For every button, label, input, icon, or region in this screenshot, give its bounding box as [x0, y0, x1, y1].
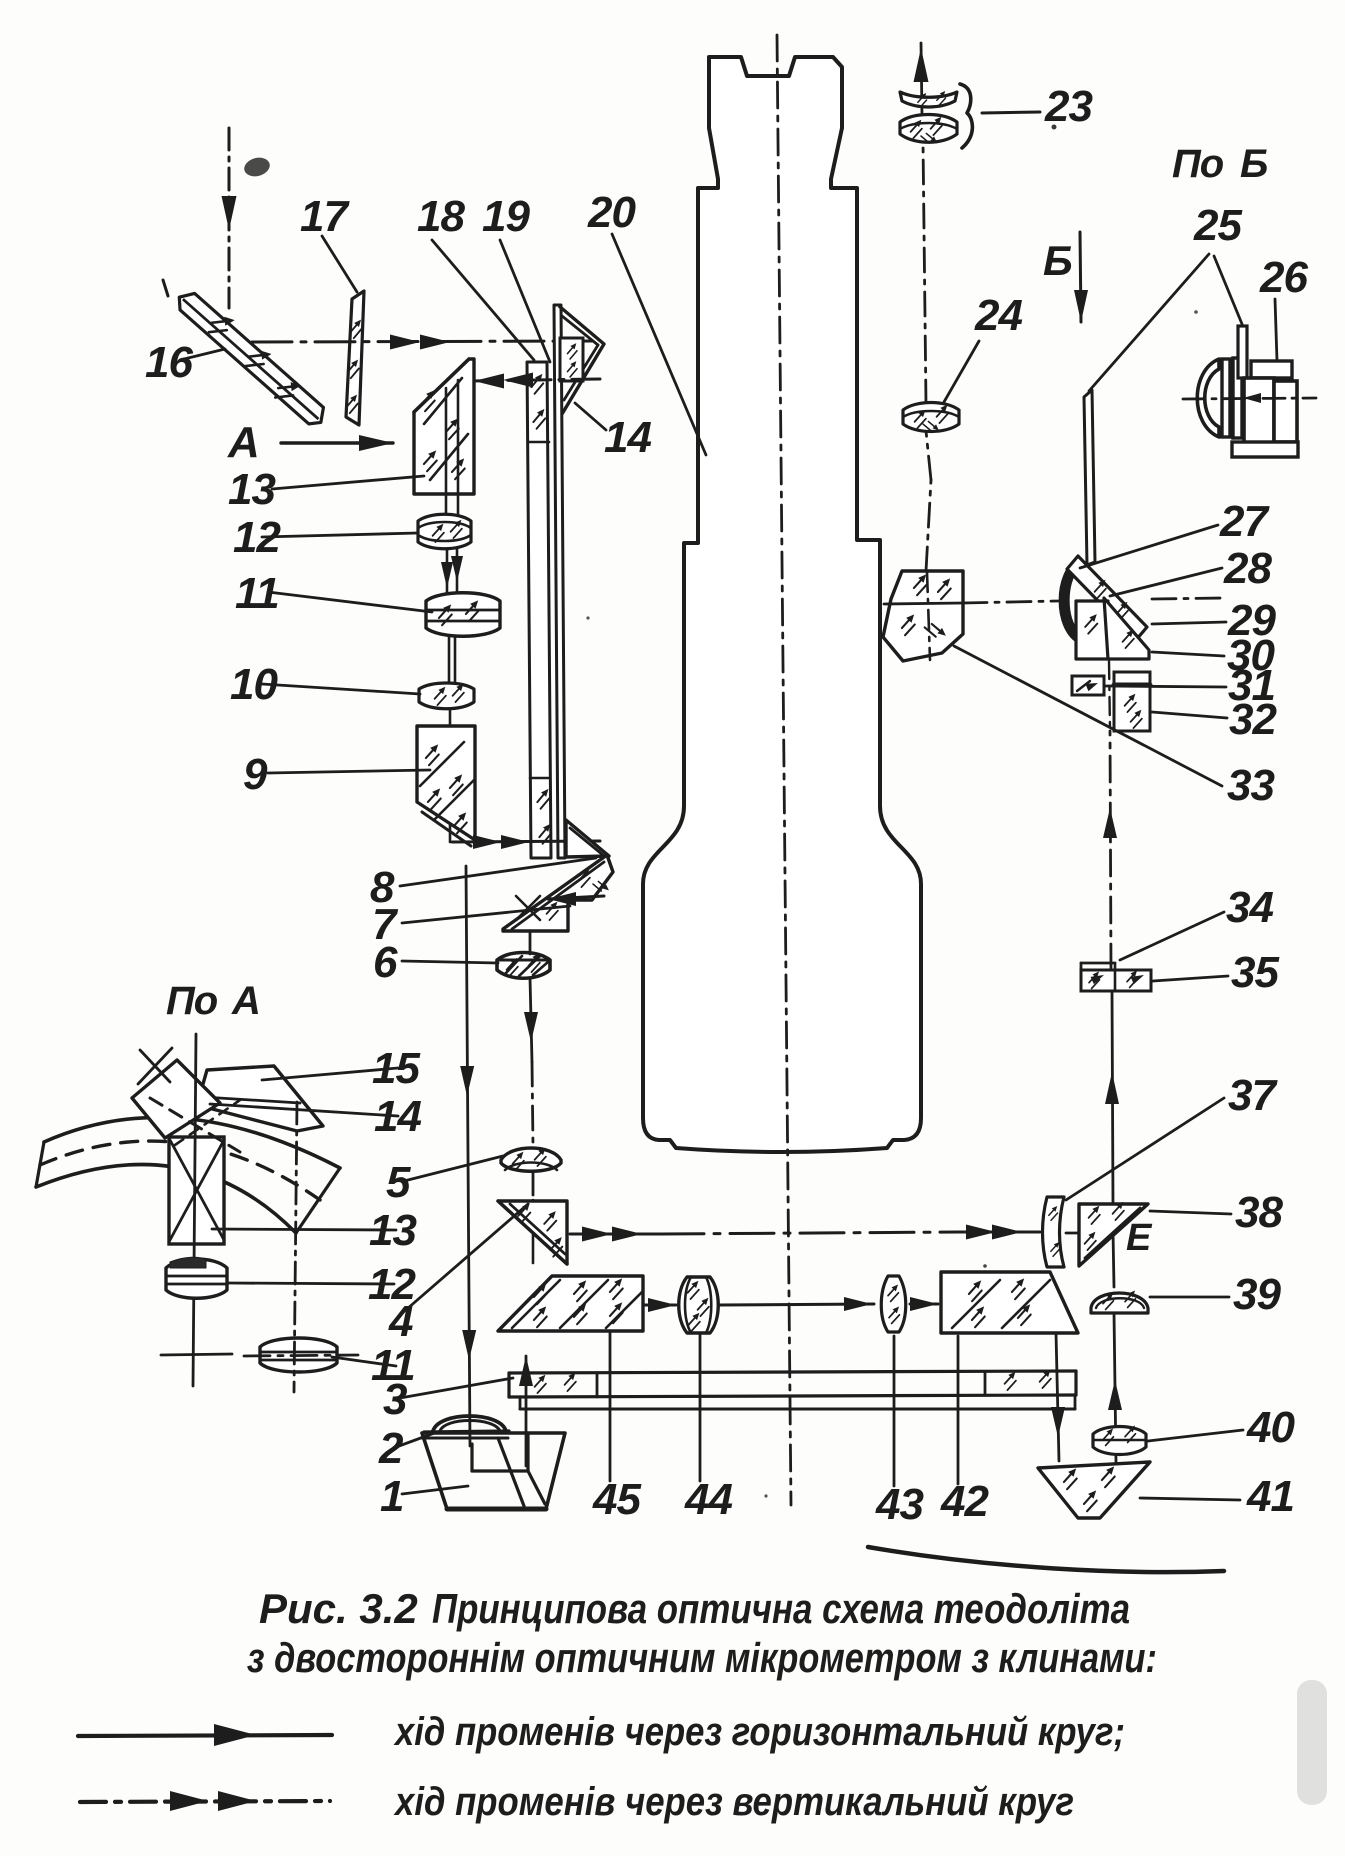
telescope centerline [777, 35, 791, 1505]
leader 25b [1214, 256, 1242, 324]
plate 25 (vertical glass scale) [1084, 390, 1095, 565]
stray curve [868, 1547, 1224, 1572]
По Б axis [1183, 393, 1316, 403]
housing 1 [422, 1433, 565, 1509]
mirror 16 [172, 280, 336, 431]
svg-text:E: E [1126, 1217, 1153, 1259]
По А rect 13 [169, 1137, 224, 1244]
arrow Б [1074, 232, 1088, 322]
label 8 [370, 858, 596, 912]
svg-text:23: 23 [1044, 82, 1092, 131]
beam prism4 rightward [570, 1225, 1040, 1242]
prism 8 [566, 820, 609, 857]
По А pentagon 15 [197, 1066, 323, 1131]
lens 44 [679, 1277, 719, 1333]
beam inside prism 7 leftward [548, 892, 604, 906]
svg-text:32: 32 [1229, 695, 1277, 744]
vertical entry beam [222, 128, 237, 308]
svg-text:По: По [1172, 142, 1224, 186]
lens 10 [419, 682, 474, 709]
axis between 31 32 [1109, 661, 1110, 731]
lens 12 [418, 514, 471, 549]
По А axis tick [161, 1354, 232, 1355]
label 44 [684, 1334, 732, 1524]
label 10 [230, 660, 420, 709]
lens 27 [1060, 559, 1078, 642]
label 25 [1193, 201, 1242, 250]
axis lens11 to lens10 [449, 636, 455, 683]
svg-text:16: 16 [145, 338, 193, 387]
prism 29 box [1076, 601, 1108, 659]
svg-text:34: 34 [1226, 883, 1273, 932]
label 45 [592, 1333, 641, 1524]
svg-text:з двостороннім оптичним мікром: з двостороннім оптичним мікрометром з кл… [247, 1634, 1157, 1681]
По А diamond prism [132, 1060, 220, 1138]
label 18 [417, 192, 534, 360]
leader 23 [982, 112, 1040, 113]
label 15 [262, 1044, 420, 1093]
svg-text:18: 18 [417, 192, 465, 241]
prism 30 triangle [1104, 598, 1149, 659]
По Б right box [1274, 381, 1297, 442]
tick above mirror 16 [163, 280, 168, 296]
plate 32 [1114, 672, 1150, 731]
label 23 [1044, 82, 1092, 131]
svg-text:17: 17 [300, 192, 350, 241]
label 6 [373, 938, 498, 987]
label 38 [1150, 1188, 1283, 1237]
axis inside prism9 [449, 726, 452, 842]
plate 35 [1081, 963, 1151, 991]
label 3 [383, 1375, 513, 1424]
svg-text:1: 1 [380, 1472, 403, 1521]
label По А [166, 979, 260, 1023]
axis lens10 to prism9 [449, 709, 452, 728]
По А band [36, 1117, 340, 1233]
pentagon prism 33 [883, 571, 963, 661]
lens 11 [426, 593, 500, 637]
lens 2 [424, 1416, 509, 1432]
legend solid text [393, 1710, 1125, 1754]
label 43 [875, 1336, 923, 1529]
svg-text:Принципова оптична схема теодо: Принципова оптична схема теодоліта [432, 1585, 1130, 1632]
svg-text:Б: Б [1043, 237, 1072, 284]
prism 41 [1038, 1462, 1150, 1518]
prism 14 [559, 306, 604, 414]
svg-text:39: 39 [1233, 1270, 1281, 1319]
label 32 [1152, 695, 1277, 744]
svg-text:42: 42 [940, 1477, 989, 1526]
bar 3 [509, 1368, 1076, 1409]
svg-text:14: 14 [604, 413, 651, 462]
legend solid ray [78, 1724, 332, 1746]
prism 13 [414, 359, 474, 494]
label 14 [210, 1092, 421, 1141]
label 30 [1152, 631, 1275, 680]
legend dashdot ray [80, 1791, 330, 1811]
beam 45 to 44 [643, 1298, 676, 1312]
telescope body 20 [643, 57, 921, 1152]
beam 44 to 43 [719, 1297, 874, 1311]
beam x531 down [524, 931, 538, 1146]
label 4 [388, 1204, 528, 1346]
svg-text:6: 6 [373, 938, 398, 987]
svg-text:26: 26 [1259, 253, 1308, 302]
lens 43 [881, 1276, 906, 1332]
label 31 [1106, 661, 1275, 710]
label 26 [1259, 253, 1308, 361]
svg-text:3: 3 [383, 1375, 407, 1424]
svg-text:20: 20 [587, 188, 636, 237]
svg-text:А: А [231, 979, 260, 1023]
svg-text:35: 35 [1231, 948, 1279, 997]
smudge artifact [1297, 1680, 1327, 1805]
svg-text:37: 37 [1228, 1071, 1278, 1120]
label 17 [300, 192, 357, 292]
label 42 [940, 1336, 989, 1526]
label По Б [1172, 142, 1267, 186]
svg-text:Рис. 3.2: Рис. 3.2 [259, 1585, 418, 1632]
label 33 [954, 646, 1274, 810]
lens 40 [1093, 1424, 1146, 1455]
svg-text:33: 33 [1227, 761, 1274, 810]
label 13 [228, 465, 424, 514]
svg-text:Б: Б [1240, 142, 1267, 186]
svg-text:5: 5 [386, 1158, 411, 1207]
label 14 [575, 403, 651, 462]
svg-text:43: 43 [875, 1480, 923, 1529]
label 35 [1153, 948, 1279, 997]
prism 9 [417, 726, 475, 846]
label 34 [1120, 883, 1273, 960]
label 28 [1110, 544, 1272, 596]
beam 42 down to 41 [1051, 1333, 1065, 1461]
label 16 [145, 338, 225, 387]
label Б [1043, 237, 1072, 284]
label 40 [1148, 1403, 1295, 1452]
label 41 [1140, 1472, 1294, 1521]
По А lens 12 [166, 1257, 227, 1298]
По Б eyepiece lens [1197, 359, 1219, 437]
label 11 [332, 1341, 415, 1390]
legend dashdot text [393, 1780, 1074, 1824]
beam mirror16 to prism14 [252, 335, 592, 350]
По Б box 26 [1251, 361, 1292, 378]
beam 37 to 38 [1066, 1232, 1110, 1235]
По А lens11 axis [244, 1355, 358, 1356]
label 7 [372, 900, 570, 949]
label 12 [233, 513, 418, 562]
svg-text:13: 13 [228, 465, 275, 514]
svg-text:9: 9 [243, 750, 268, 799]
label 24 [944, 291, 1022, 402]
svg-text:41: 41 [1246, 1472, 1294, 1521]
beam prism14 to prism13 [470, 373, 600, 389]
svg-text:24: 24 [974, 291, 1022, 340]
prism 45 [498, 1276, 643, 1331]
svg-text:A: A [227, 418, 259, 467]
plate 18 (narrow vertical) [554, 305, 565, 858]
label 9 [243, 750, 430, 799]
caption line 1 [259, 1585, 1130, 1632]
label 29 [1152, 596, 1276, 645]
caption line 2 [247, 1634, 1157, 1681]
По А axis2 vertical [294, 1102, 297, 1392]
svg-text:45: 45 [592, 1475, 641, 1524]
label 27 [1080, 497, 1270, 568]
label 20 [587, 188, 706, 455]
svg-text:44: 44 [684, 1475, 732, 1524]
axis through lens5 prism4 [532, 1171, 535, 1263]
beam x526 up from lamp [519, 1356, 533, 1466]
По Б bottom bar [1232, 442, 1298, 457]
axis prism13 to lens12 [446, 380, 458, 515]
label A [227, 418, 259, 467]
svg-text:хід променів через вертикальни: хід променів через вертикальний круг [393, 1780, 1074, 1824]
label 11 [235, 569, 432, 618]
lens 37 [1043, 1197, 1065, 1267]
beam 39 to prism38 [1113, 1232, 1114, 1287]
label 5 [386, 1156, 503, 1207]
label E [1126, 1217, 1153, 1259]
prism 7 [503, 855, 613, 931]
По Б small plate 25 [1238, 326, 1247, 378]
svg-text:40: 40 [1246, 1403, 1295, 1452]
ink blob artifact [242, 155, 272, 179]
svg-text:19: 19 [482, 192, 530, 241]
plate 19 (wide vertical) [527, 362, 556, 858]
label 13 [212, 1206, 416, 1255]
svg-text:38: 38 [1235, 1188, 1283, 1237]
noise dots [586, 125, 1197, 1652]
prism 42 [941, 1272, 1078, 1333]
axis 33 to 24 to 23 [914, 43, 932, 480]
По А cross ticks [138, 1048, 172, 1084]
lens 24 [903, 403, 959, 435]
svg-text:28: 28 [1223, 544, 1272, 593]
label 12 [228, 1260, 416, 1309]
brace 23 [960, 84, 972, 148]
svg-text:27: 27 [1219, 497, 1270, 546]
beam prism9 to prism8 [452, 835, 600, 849]
leader 25a [1089, 254, 1209, 391]
label 39 [1150, 1270, 1281, 1319]
axis pentagon33 vertical [926, 480, 931, 660]
prism 38 [1079, 1200, 1148, 1266]
По Б main box [1244, 378, 1274, 448]
По Б bars [1222, 358, 1242, 438]
svg-text:4: 4 [388, 1297, 413, 1346]
axis lens12 to lens11 [441, 549, 463, 594]
prism 28 [1067, 556, 1147, 640]
lens 5 [501, 1146, 561, 1172]
label 2 [378, 1424, 437, 1473]
prism 4 [498, 1201, 567, 1264]
lens 6 [497, 952, 550, 979]
label 1 [380, 1472, 468, 1521]
beam 43 to 42 [910, 1297, 938, 1311]
svg-text:По: По [166, 979, 218, 1023]
lens 39 [1091, 1289, 1148, 1313]
beam plate35 up to cluster [1103, 731, 1117, 970]
svg-text:хід променів через горизонталь: хід променів через горизонтальний круг; [393, 1710, 1125, 1754]
svg-text:2: 2 [378, 1424, 404, 1473]
axis pentagon33 to cluster [963, 598, 1225, 603]
beam x466 down [460, 866, 476, 1446]
label 37 [1066, 1071, 1278, 1200]
svg-text:25: 25 [1193, 201, 1242, 250]
arrow A [281, 435, 393, 451]
plate 17 [342, 291, 365, 425]
По А axis vertical [193, 1034, 196, 1386]
По А dashes near crossing [150, 1098, 240, 1152]
beam 41 up through 40 39 [1108, 1313, 1122, 1462]
beam prism38 up to plate35 [1105, 991, 1119, 1204]
plate 31 [1072, 676, 1104, 695]
lens 23 lower [900, 115, 957, 147]
По А lens 11 [260, 1338, 337, 1372]
label 19 [482, 192, 550, 362]
lens 23 upper [900, 89, 957, 107]
